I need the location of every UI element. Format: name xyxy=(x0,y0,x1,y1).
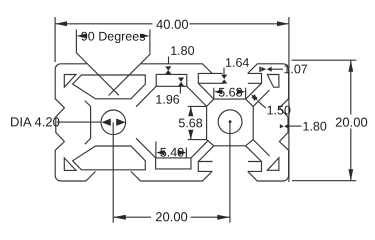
dim 1.80 top leader xyxy=(168,57,170,64)
bottom-right slot lip bar right xyxy=(248,162,262,172)
dim 5.68 vertical extension bars xyxy=(188,106,207,139)
dim 20.00 right line xyxy=(350,60,352,181)
dim 1.96 leader xyxy=(179,86,181,94)
dim 40.00 extension lines xyxy=(55,17,289,182)
arrows 1.07 xyxy=(259,67,271,72)
V-slot construction line B xyxy=(109,54,151,96)
web line bottom-right xyxy=(253,140,269,156)
corner cavity top-right xyxy=(267,75,279,88)
dim 5.68 vertical line xyxy=(190,106,192,139)
svg-text:20.00: 20.00 xyxy=(155,209,188,224)
corner cavity bottom-right xyxy=(267,158,279,171)
arrow 40.00 left xyxy=(55,21,67,26)
hole right xyxy=(218,110,242,134)
arrow 20.00 right top xyxy=(348,60,353,71)
arrow 20.00 right bottom xyxy=(348,169,353,181)
DIA 4.20 leader xyxy=(57,121,101,123)
top-right slot lip bar left xyxy=(198,73,222,83)
svg-text:DIA 4.20: DIA 4.20 xyxy=(10,114,60,129)
dim 20.00 bottom line xyxy=(113,216,230,218)
bottom-right slot lip bar left xyxy=(198,162,212,172)
dim 1.07 leader xyxy=(272,68,283,70)
dim 1.50 leader xyxy=(258,101,266,108)
svg-text:1.50: 1.50 xyxy=(267,103,291,117)
right hole center dot xyxy=(229,120,232,123)
bottom-center void xyxy=(136,138,208,169)
left end slot cavity wall xyxy=(85,101,91,145)
dim 90 degrees extension lines xyxy=(76,30,149,54)
dim 1.64 leader xyxy=(223,68,225,75)
svg-text:1.64: 1.64 xyxy=(225,56,249,70)
top-center void xyxy=(136,74,207,106)
arrow 5.68h left xyxy=(214,89,222,94)
arrow 5.40 left xyxy=(156,150,164,155)
arrow 5.68h right xyxy=(237,89,245,94)
top-left V cavity xyxy=(73,75,146,99)
DIA arrows in left hole xyxy=(102,119,126,126)
bowtie 1.50 xyxy=(251,94,257,101)
web line top-right xyxy=(253,90,269,106)
svg-text:1.96: 1.96 xyxy=(155,93,179,107)
hourglass 1.96 xyxy=(178,78,184,87)
dim 1.80 right leader xyxy=(289,125,302,127)
dim 5.40 extension bars xyxy=(156,142,187,158)
arrow 40.00 right xyxy=(277,21,289,26)
svg-text:1.80: 1.80 xyxy=(302,119,326,133)
dim 5.68 horizontal extension bars xyxy=(214,88,246,99)
corner cavity bottom-left xyxy=(64,158,76,171)
arrow 5.68v bottom xyxy=(188,130,193,140)
arrow 90deg right xyxy=(140,34,150,39)
arrow 90deg left xyxy=(76,34,86,39)
V-slot construction line A xyxy=(77,53,119,95)
bottom-left cavity xyxy=(73,146,146,170)
svg-text:40.00: 40.00 xyxy=(156,17,189,32)
center bore octagon xyxy=(207,99,254,146)
leader blob 1.80 right xyxy=(280,124,288,128)
corner cavity top-left xyxy=(64,75,76,88)
svg-text:90 Degrees: 90 Degrees xyxy=(81,30,146,44)
svg-text:1.07: 1.07 xyxy=(283,62,307,76)
arrow 5.68v top xyxy=(188,107,193,117)
dim 20.00 right extension lines xyxy=(292,60,357,181)
svg-text:20.00: 20.00 xyxy=(335,115,368,130)
svg-text:5.68: 5.68 xyxy=(218,86,242,100)
svg-text:1.80: 1.80 xyxy=(170,44,194,58)
hourglass 1.64 xyxy=(221,75,227,84)
svg-text:5.68: 5.68 xyxy=(178,116,202,130)
dim 20.00 bottom extension lines xyxy=(113,122,230,222)
arrow 5.40 right xyxy=(178,150,186,155)
arrow 20.00 bottom left xyxy=(113,215,126,220)
arrow 20.00 bottom right xyxy=(217,215,230,220)
svg-text:5.40: 5.40 xyxy=(160,145,184,159)
profile outer outline xyxy=(55,64,288,181)
top-right slot cavity walls xyxy=(198,83,261,99)
top-right slot lip bar right xyxy=(248,73,262,83)
hourglass 1.80 xyxy=(165,66,171,74)
bottom-right slot cavity walls xyxy=(198,146,261,162)
hole left xyxy=(101,110,126,135)
dim 40.00 line xyxy=(55,23,288,25)
